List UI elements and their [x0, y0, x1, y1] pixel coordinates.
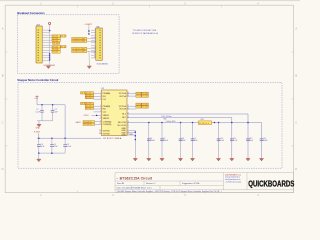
wire P5V0 to U2 [92, 114, 100, 116]
svg-text:10uF: 10uF [249, 140, 253, 142]
wire W1 top [127, 113, 248, 115]
capacitor C9 [191, 139, 195, 141]
svg-text:10uF: 10uF [182, 140, 186, 142]
wires U2 to R2 cluster [127, 106, 136, 109]
resistor R3b [53, 42, 60, 45]
svg-text:SE-COM: SE-COM [118, 122, 126, 124]
svg-text:R1 10K 5%: R1 10K 5% [84, 121, 93, 123]
resistor R9 [72, 47, 87, 50]
svg-text:B: B [2, 73, 4, 77]
wires J1 pin stubs [42, 30, 52, 60]
wire C5 bottom stub [64, 147, 66, 154]
wire +5V stem to J2 bus [88, 25, 90, 34]
ground upper-left [37, 125, 41, 127]
resistor R12 [85, 94, 93, 97]
capacitor C1 [40, 110, 44, 112]
svg-text:PWM(B): PWM(B) [103, 106, 111, 108]
resistor R19 [136, 92, 141, 95]
svg-text:R1 10K: R1 10K [143, 104, 149, 106]
svg-text:4.7uF: 4.7uF [233, 140, 237, 142]
svg-text:COMP(A): COMP(A) [103, 120, 112, 123]
svg-text:1.4Ohm RS3: 1.4Ohm RS3 [166, 121, 176, 123]
wire W3 sense rail [127, 122, 262, 124]
svg-text:QB-CAD Stepper Motor Controlle: QB-CAD Stepper Motor Controller Supplies… [117, 190, 220, 193]
ground under C13 [259, 159, 263, 161]
svg-text:0.1uF: 0.1uF [220, 140, 224, 142]
resistor R10 [72, 50, 87, 53]
resistor R21 value box [142, 103, 149, 106]
wires U2 to R1 cluster [127, 94, 136, 97]
wire U2 pad stubs [127, 130, 135, 135]
svg-text:R1 10: R1 10 [137, 104, 141, 106]
junction motor rail left [38, 137, 40, 139]
junctions on W3 [148, 122, 249, 124]
junctions U2 pad [135, 131, 136, 140]
window top edge strip [0, 0, 300, 1]
capacitor C6 [147, 139, 151, 141]
svg-text:R1 10: R1 10 [61, 46, 65, 48]
svg-text:NC-COM: NC-COM [118, 125, 127, 127]
junction P5V0 [96, 115, 98, 117]
svg-text:A: A [2, 27, 4, 31]
resistor R1 [52, 35, 60, 38]
resistor R20 [136, 95, 141, 98]
wire W2 middle [127, 117, 232, 119]
resistor R6 [52, 51, 60, 54]
wire C4 top stub [51, 138, 53, 145]
svg-text:10: 10 [94, 52, 96, 54]
wire W1 vertical drop [247, 114, 249, 159]
resistor R4 value box [61, 46, 66, 49]
svg-text:24: 24 [127, 92, 129, 94]
resistor R5 [52, 48, 60, 51]
svg-text:BTS62C15AEA: BTS62C15AEA [103, 137, 121, 140]
capacitor C5 [63, 145, 67, 147]
capacitor C7 [160, 139, 164, 141]
svg-text:23: 23 [127, 95, 129, 97]
resistor RS1 [198, 121, 211, 125]
junction C1 [41, 104, 43, 106]
wire C6 drop [148, 123, 150, 159]
wire C1 bottom stub [41, 112, 43, 121]
svg-text:Revision: 2: Revision: 2 [146, 183, 155, 185]
capacitor C11 [230, 139, 234, 141]
svg-text:100nF: 100nF [263, 140, 268, 142]
svg-text:PWM(A): PWM(A) [103, 92, 111, 95]
junction C2 [52, 104, 54, 106]
svg-text:P5V0: P5V0 [84, 115, 89, 117]
svg-text:R1 10K: R1 10K [143, 96, 149, 98]
resistor R21 [136, 103, 141, 106]
svg-text:A: A [295, 27, 297, 31]
junctions on J1 bus [49, 53, 50, 60]
ground under J2 bus [87, 66, 91, 68]
svg-text:R1 10K: R1 10K [53, 43, 59, 45]
title block vertical divider logo [246, 173, 248, 190]
wire C5 top stub [64, 138, 66, 145]
svg-text:21: 21 [127, 108, 129, 110]
title block row3 divider a [130, 185, 132, 189]
IC U2 left pin numbers [99, 92, 101, 134]
svg-text:12: 12 [99, 133, 101, 135]
section dashed box Stepper Motor Controller Circuit [18, 83, 282, 169]
wire R8 to J2 [87, 40, 96, 42]
svg-text:R1 10: R1 10 [137, 93, 141, 95]
svg-text:16: 16 [127, 127, 129, 129]
title block vertical divider company [223, 173, 225, 190]
wire motor supply rail [37, 137, 101, 139]
wire P_MOT stem [38, 133, 40, 138]
title block outer box [115, 173, 294, 193]
svg-text:P_MOT: P_MOT [34, 132, 41, 134]
resistor R17 [83, 121, 95, 124]
svg-text:R1 10: R1 10 [137, 96, 141, 98]
svg-text:R1 10: R1 10 [137, 107, 141, 109]
svg-text:R1 10K 5% 1/8W: R1 10K 5% 1/8W [73, 41, 86, 43]
svg-text:B: B [295, 73, 297, 77]
title block row2 divider a [143, 181, 145, 185]
sheet frame border [5, 5, 293, 192]
svg-text:18: 18 [127, 121, 129, 123]
svg-text:+1 (555) 014-Canada: +1 (555) 014-Canada [225, 181, 241, 183]
resistor R11 [85, 92, 93, 95]
resistor R19 value box [142, 92, 149, 95]
svg-text:15: 15 [127, 129, 129, 131]
wire C3 top stub [38, 138, 40, 145]
wire W2 vertical drop [231, 118, 233, 159]
svg-text:R1 1: R1 1 [81, 92, 84, 94]
resistor R14 [85, 102, 93, 105]
svg-text:11: 11 [94, 54, 96, 56]
junctions on J2 bus [88, 30, 89, 34]
resistor R4 [52, 46, 60, 49]
wire R10 to J2 [87, 50, 96, 52]
svg-text:Date: 2-15-2021 8:39:03 AM: Date: 2-15-2021 8:39:03 AM Sheet: 1 of 1 [117, 187, 152, 190]
resistor R7 [72, 37, 87, 40]
svg-text:QUICKBOARDS: QUICKBOARDS [248, 180, 294, 189]
ground under C10 [216, 159, 220, 161]
ground under J1 bus [46, 66, 50, 68]
svg-text:VCPLW: VCPLW [103, 134, 110, 136]
wires L2 to U2 [94, 106, 100, 112]
wire ground stub lower-left [38, 153, 40, 159]
svg-text:17: 17 [127, 124, 129, 126]
svg-text:C: C [2, 120, 4, 124]
capacitor C2 [51, 110, 55, 112]
resistor R1 value box [61, 35, 66, 38]
wires L1 to U2 [94, 94, 100, 100]
svg-text:Size: A4: Size: A4 [117, 182, 124, 185]
IC U2 body [101, 90, 127, 136]
resistor R2 [52, 37, 60, 40]
wire C1 top stub [41, 105, 43, 111]
svg-text:VST1-A: VST1-A [119, 92, 127, 95]
wires J2 pin stubs [91, 30, 96, 58]
svg-text:+5V: +5V [34, 98, 38, 100]
wire C3 bottom stub [38, 147, 40, 154]
wire +5V rail [37, 104, 65, 106]
svg-text:COMP(B): COMP(B) [103, 124, 112, 126]
svg-text:VCPLW: VCPLW [103, 131, 110, 133]
frame column ticks top [5, 5, 293, 192]
ground under C12 [246, 159, 250, 161]
wire U2 pad vertical to ground [134, 130, 136, 158]
junction under power flag [49, 30, 51, 32]
ground under C7 [160, 159, 164, 161]
svg-text:VREF1: VREF1 [103, 115, 110, 117]
svg-text:GND: GND [36, 127, 41, 129]
capacitor C10 [217, 139, 221, 141]
wires L3 to U2 [95, 122, 100, 125]
title block horizontal line 2 [115, 184, 224, 186]
wire lower rail of +5V caps [37, 120, 53, 122]
svg-text:R1 10K 5%: R1 10K 5% [84, 124, 93, 126]
wire C10 drop [218, 123, 220, 159]
svg-text:sz: sz [116, 178, 118, 180]
svg-text:RS1: RS1 [201, 119, 204, 121]
svg-text:Stepper Motor Controller Circu: Stepper Motor Controller Circuit [17, 78, 58, 82]
svg-text:VST2-A: VST2-A [119, 105, 127, 108]
ground under C8 [178, 159, 182, 161]
svg-text:D: D [295, 167, 297, 171]
ground lower-left [37, 159, 41, 161]
resistor R14 small [81, 102, 85, 105]
junction lower rail b [51, 152, 53, 154]
wire C8 drop [180, 123, 182, 159]
resistor R20 value box [142, 95, 149, 98]
wire C2 top stub [52, 105, 54, 111]
wire J2 bus to ground [88, 51, 90, 66]
connector J1 [36, 26, 42, 63]
svg-text:C: C [295, 120, 297, 124]
svg-text:22: 22 [127, 105, 129, 107]
svg-text:D: D [2, 167, 4, 171]
connector J2 [96, 28, 103, 60]
sheet background [0, 0, 300, 198]
resistor R22 value box [142, 106, 149, 109]
capacitor C4 [50, 145, 54, 147]
svg-text:R1 1: R1 1 [81, 103, 84, 105]
section dashed box Breakout Connectors [17, 15, 119, 74]
svg-text:100nF: 100nF [150, 140, 155, 142]
svg-text:GA1N: GA1N [76, 121, 82, 124]
resistor R22 [136, 106, 141, 109]
IC U2 left pin names [103, 92, 112, 135]
ground under C6 [147, 159, 151, 161]
title block row2 divider b [179, 181, 181, 185]
svg-text:SCM-08BS01: SCM-08BS01 [97, 63, 109, 65]
svg-text:R1 10K 5% 1/: R1 10K 5% 1/ [199, 123, 209, 125]
svg-text:10: 10 [99, 123, 101, 125]
svg-text:11: 11 [99, 130, 101, 132]
svg-text:VREF2: VREF2 [103, 118, 110, 120]
resistor R3 [52, 40, 60, 43]
svg-text:12: 12 [94, 57, 96, 59]
svg-text:R1 10: R1 10 [61, 36, 65, 38]
wire C4 bottom stub [51, 147, 53, 154]
capacitor C12 [246, 139, 250, 141]
svg-text:R1 10K: R1 10K [143, 107, 149, 109]
svg-text:GND: GND [121, 135, 126, 137]
IC U2 left pin stubs [99, 94, 101, 134]
wire C7 drop [161, 123, 163, 159]
capacitor C8 [179, 139, 183, 141]
svg-text:R1 10K 5: R1 10K 5 [86, 108, 93, 110]
svg-text:R1 10K: R1 10K [143, 93, 149, 95]
resistor R13 [85, 97, 93, 100]
svg-text:BTS62C15A Circuit: BTS62C15A Circuit [120, 176, 153, 180]
svg-text:100nF: 100nF [163, 140, 168, 142]
svg-text:14: 14 [127, 131, 129, 133]
wire ground stub upper-left [38, 121, 40, 125]
wire J1 vertical bus [49, 31, 51, 63]
wire +5V stem [36, 96, 38, 105]
capacitor C13 [260, 139, 264, 141]
svg-text:R1 10K 5: R1 10K 5 [86, 97, 93, 99]
resistor R11 small [81, 92, 85, 95]
IC U2 right pin stubs [127, 94, 129, 126]
ground under C9 [190, 159, 194, 161]
wire W3 vertical drop right end [261, 123, 263, 159]
resistor R16 [85, 107, 93, 110]
svg-text:IN REV P.3 PACKAGES 4-40: IN REV P.3 PACKAGES 4-40 [132, 32, 159, 35]
svg-text:R1 10K 5% 1/8W: R1 10K 5% 1/8W [73, 51, 86, 53]
svg-text:Suggestions: W 5/8h: Suggestions: W 5/8h [182, 182, 199, 185]
title block horizontal line 3 [115, 189, 294, 191]
IC U2 right pin numbers [127, 92, 129, 136]
svg-text:20: 20 [127, 113, 129, 115]
J2 pin numbers [94, 29, 96, 59]
junction C4 [51, 137, 53, 139]
wire R9 to J2 [87, 48, 96, 50]
resistor R18 [83, 123, 95, 126]
wire power flag stem [49, 25, 51, 31]
svg-text:10uF: 10uF [194, 140, 198, 142]
svg-text:R1 10K: R1 10K [53, 52, 59, 54]
wire vertical to motor rail [64, 105, 66, 138]
power flag PWR01 +5V circle [48, 22, 50, 24]
junction C5 [64, 137, 66, 139]
wire C2 bottom stub [52, 112, 54, 121]
title block row3 divider b [159, 185, 161, 189]
IC U2 right pin names [118, 92, 127, 137]
capacitor C3 [37, 145, 41, 147]
ground under U2 pad [133, 159, 137, 161]
ground stem J1 [48, 63, 49, 67]
resistor R8 [72, 40, 87, 43]
wire R7 to J2 [87, 38, 96, 40]
svg-text:Breakout Connectors: Breakout Connectors [17, 11, 45, 15]
svg-text:OUT1A: OUT1A [119, 95, 126, 98]
wire lower rail of motor caps [39, 152, 65, 154]
title block horizontal line 1 [115, 180, 224, 182]
frame zone labels [2, 1, 298, 197]
wire C9 drop [192, 123, 194, 159]
resistor R15 [85, 105, 93, 108]
svg-text:OUT2A: OUT2A [119, 108, 126, 111]
svg-text:TTL/485 IS OFF NET USE: TTL/485 IS OFF NET USE [133, 30, 157, 32]
svg-text:19: 19 [127, 116, 129, 118]
junction lower rail a [38, 152, 40, 154]
power flag +5V left bar [36, 95, 39, 97]
ground under C11 [230, 159, 234, 161]
